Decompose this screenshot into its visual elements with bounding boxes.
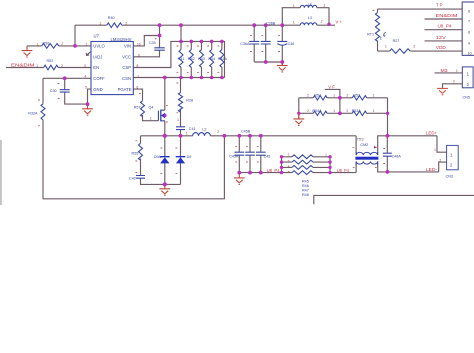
svg-text:1: 1 <box>456 69 458 73</box>
svg-text:R27: R27 <box>393 39 400 43</box>
svg-text:R40: R40 <box>108 16 115 20</box>
svg-text:COFF: COFF <box>93 76 105 81</box>
svg-text:CM2: CM2 <box>360 143 368 147</box>
svg-text:C36: C36 <box>288 42 295 46</box>
svg-text:C35: C35 <box>149 41 156 45</box>
svg-text:2: 2 <box>217 130 219 134</box>
svg-text:D9: D9 <box>187 155 192 159</box>
svg-text:CN5: CN5 <box>463 95 470 99</box>
svg-text:3: 3 <box>84 64 86 68</box>
svg-text:U8_P4: U8_P4 <box>267 168 281 173</box>
svg-text:2: 2 <box>346 109 348 113</box>
svg-text:V+: V+ <box>336 20 343 25</box>
svg-text:1: 1 <box>434 148 436 152</box>
svg-text:VDD: VDD <box>436 45 446 50</box>
svg-text:C42: C42 <box>129 176 136 180</box>
svg-text:R56: R56 <box>43 42 50 46</box>
svg-text:R47: R47 <box>302 188 309 192</box>
svg-text:C36A: C36A <box>240 42 250 46</box>
svg-text:R32A: R32A <box>28 112 38 116</box>
svg-text:EN&DIM: EN&DIM <box>436 13 459 18</box>
svg-text:C41: C41 <box>189 127 196 131</box>
svg-text:9: 9 <box>138 53 140 57</box>
svg-text:1: 1 <box>150 117 152 121</box>
svg-text:9: 9 <box>468 42 470 46</box>
svg-text:1: 1 <box>99 21 101 25</box>
svg-text:R57: R57 <box>134 105 141 109</box>
svg-text:R52: R52 <box>47 59 54 63</box>
svg-text:5: 5 <box>85 85 87 89</box>
svg-text:C46A: C46A <box>392 155 402 159</box>
svg-text:4: 4 <box>84 75 86 79</box>
svg-text:1: 1 <box>385 45 387 49</box>
svg-text:2: 2 <box>453 80 455 84</box>
svg-text:CSP: CSP <box>122 65 131 70</box>
svg-text:C45B: C45B <box>241 130 251 134</box>
svg-text:2: 2 <box>321 20 323 24</box>
svg-text:R41A: R41A <box>218 57 228 61</box>
svg-text:EN&DIM: EN&DIM <box>11 63 35 68</box>
svg-text:8: 8 <box>137 64 139 68</box>
svg-text:8: 8 <box>468 30 470 34</box>
svg-text:U7: U7 <box>94 33 100 38</box>
svg-text:R53: R53 <box>353 93 360 97</box>
svg-text:10: 10 <box>467 52 471 56</box>
svg-text:VCC: VCC <box>122 54 131 59</box>
svg-text:U8_P4: U8_P4 <box>438 24 453 29</box>
svg-text:R42: R42 <box>188 57 195 61</box>
svg-text:1: 1 <box>293 20 295 24</box>
svg-text:2: 2 <box>307 93 309 97</box>
svg-text:R55: R55 <box>132 151 139 155</box>
svg-text:GND: GND <box>93 87 102 92</box>
svg-text:1: 1 <box>293 4 295 8</box>
svg-text:CSN: CSN <box>122 76 131 81</box>
svg-text:1: 1 <box>86 42 88 46</box>
svg-text:R54A: R54A <box>312 109 322 113</box>
svg-text:1: 1 <box>373 93 375 97</box>
svg-text:IADJ: IADJ <box>93 54 102 59</box>
svg-text:R48: R48 <box>302 193 309 197</box>
svg-text:VIN: VIN <box>124 44 131 49</box>
svg-text:C30: C30 <box>50 89 57 93</box>
svg-text:7: 7 <box>137 75 139 79</box>
svg-text:R45: R45 <box>302 179 309 183</box>
svg-text:2: 2 <box>307 109 309 113</box>
svg-text:C45: C45 <box>264 154 271 158</box>
svg-text:1: 1 <box>186 131 188 135</box>
svg-text:2: 2 <box>61 64 63 68</box>
svg-text:D9A: D9A <box>154 155 162 159</box>
svg-text:2: 2 <box>324 4 326 8</box>
svg-text:L3: L3 <box>308 16 312 20</box>
svg-text:R44: R44 <box>208 57 215 61</box>
svg-text:2: 2 <box>439 158 441 162</box>
svg-text:R41: R41 <box>178 57 185 61</box>
svg-text:6: 6 <box>468 10 470 14</box>
svg-text:12V: 12V <box>436 35 446 40</box>
svg-text:EN: EN <box>93 65 99 70</box>
svg-text:UVLO: UVLO <box>93 44 105 49</box>
svg-text:R54: R54 <box>314 93 321 97</box>
svg-text:10: 10 <box>137 42 141 46</box>
svg-text:U8_P4: U8_P4 <box>337 168 350 173</box>
svg-text:2: 2 <box>125 22 127 26</box>
svg-text:LM3429HV: LM3429HV <box>111 37 132 42</box>
svg-text:R46: R46 <box>302 184 309 188</box>
svg-text:1: 1 <box>333 93 335 97</box>
svg-text:VF: VF <box>328 85 335 90</box>
svg-text:PGATE: PGATE <box>118 87 132 92</box>
svg-text:2: 2 <box>346 93 348 97</box>
svg-text:7: 7 <box>468 20 470 24</box>
svg-text:1: 1 <box>177 118 179 122</box>
svg-text:7'5'3: 7'5'3 <box>357 137 364 141</box>
svg-text:CN3: CN3 <box>446 175 453 179</box>
svg-text:Q4: Q4 <box>149 105 154 109</box>
svg-text:M3: M3 <box>441 68 449 73</box>
svg-text:RT1: RT1 <box>367 33 374 37</box>
svg-text:LED+: LED+ <box>426 131 438 136</box>
svg-text:2: 2 <box>61 42 63 46</box>
svg-text:2: 2 <box>413 45 415 49</box>
svg-text:R43: R43 <box>198 57 205 61</box>
svg-text:C36B: C36B <box>266 21 276 25</box>
svg-text:1: 1 <box>36 64 38 68</box>
svg-text:6: 6 <box>137 86 139 90</box>
svg-text:L4: L4 <box>308 2 312 6</box>
svg-text:LED-: LED- <box>426 167 438 172</box>
svg-text:TP: TP <box>436 3 443 8</box>
svg-text:R28: R28 <box>186 99 193 103</box>
svg-text:C45A: C45A <box>229 154 239 158</box>
svg-text:1: 1 <box>37 42 39 46</box>
svg-text:1: 1 <box>373 109 375 113</box>
svg-text:L2: L2 <box>202 127 206 131</box>
svg-text:R53A: R53A <box>352 109 362 113</box>
svg-text:1: 1 <box>333 109 335 113</box>
